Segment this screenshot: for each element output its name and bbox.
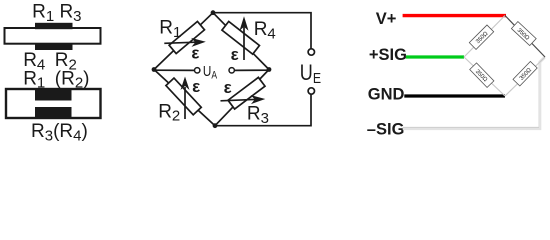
- bridge arm bottom-left: [464, 57, 505, 96]
- node bottom: [213, 123, 218, 128]
- wire top node to UE top terminal: [213, 13, 311, 49]
- beam 2 body: [6, 89, 101, 118]
- label UE: [300, 62, 321, 87]
- gauge bar lower inside beam 2: [35, 107, 72, 117]
- wire bottom node to right node: [215, 70, 269, 126]
- UA right terminal: [229, 68, 234, 73]
- bridge arm bottom-right: [505, 57, 545, 96]
- gauge bar bottom of beam 1: [35, 44, 73, 50]
- resistor 350ohm bottom-right: [513, 61, 537, 86]
- bridge arm top-left (white lead): [464, 16, 505, 58]
- beam 1 body: [5, 28, 101, 44]
- resistor R1 (top-left arm): [169, 21, 204, 53]
- wire top node to right node: [213, 13, 269, 70]
- resistor R3 (bottom-right arm): [228, 77, 265, 109]
- resistor 350ohm bottom-left: [470, 63, 494, 88]
- wire top node to left node: [154, 13, 213, 70]
- wire +SIG green: [406, 55, 464, 58]
- svg-text:+SIG: +SIG: [369, 46, 407, 64]
- svg-text:V+: V+: [376, 10, 397, 28]
- arrow through R2: [184, 87, 186, 119]
- wire -SIG white (outlined): [403, 57, 545, 128]
- wire left node to bottom node: [154, 70, 215, 126]
- svg-text:R3(R4): R3(R4): [31, 121, 88, 144]
- wire UE bottom terminal to bottom node: [215, 94, 311, 126]
- svg-text:ε: ε: [224, 78, 232, 97]
- svg-text:ε: ε: [231, 45, 239, 64]
- svg-text:R1 R3: R1 R3: [32, 2, 81, 25]
- svg-text:R2: R2: [158, 101, 180, 124]
- resistor R2 (bottom-left arm): [166, 78, 201, 115]
- node left: [152, 67, 157, 72]
- svg-text:R1: R1: [159, 18, 181, 41]
- gauge bar top of beam 1: [35, 23, 73, 29]
- label UA: [203, 62, 218, 81]
- UA left terminal: [195, 68, 200, 73]
- svg-text:GND: GND: [368, 85, 405, 103]
- arrow through R4: [243, 27, 245, 60]
- gauge bar upper inside beam 2: [35, 90, 72, 101]
- svg-text:R4: R4: [254, 19, 276, 42]
- node top: [211, 10, 216, 15]
- svg-text:R3: R3: [247, 104, 269, 127]
- wire V+ red: [403, 14, 506, 17]
- wire GND black: [404, 94, 505, 97]
- wire left node to UA left terminal: [154, 69, 195, 71]
- node right: [267, 67, 272, 72]
- arrow through R3: [221, 99, 256, 100]
- bridge arm top-right (dark lead): [505, 16, 545, 58]
- UE top terminal: [308, 49, 314, 55]
- UE bottom terminal: [308, 88, 314, 94]
- resistor 350ohm top-left: [469, 25, 493, 49]
- resistor 350ohm top-right: [511, 22, 536, 46]
- svg-text:ε: ε: [191, 44, 199, 63]
- wire UA right terminal to right node: [234, 69, 269, 71]
- svg-text:UE: UE: [300, 62, 321, 87]
- resistor R4 (top-right arm): [222, 21, 260, 54]
- svg-text:ε: ε: [192, 77, 200, 96]
- arrow through R1: [164, 42, 196, 43]
- svg-text:UA: UA: [203, 62, 218, 81]
- svg-text:–SIG: –SIG: [367, 120, 405, 138]
